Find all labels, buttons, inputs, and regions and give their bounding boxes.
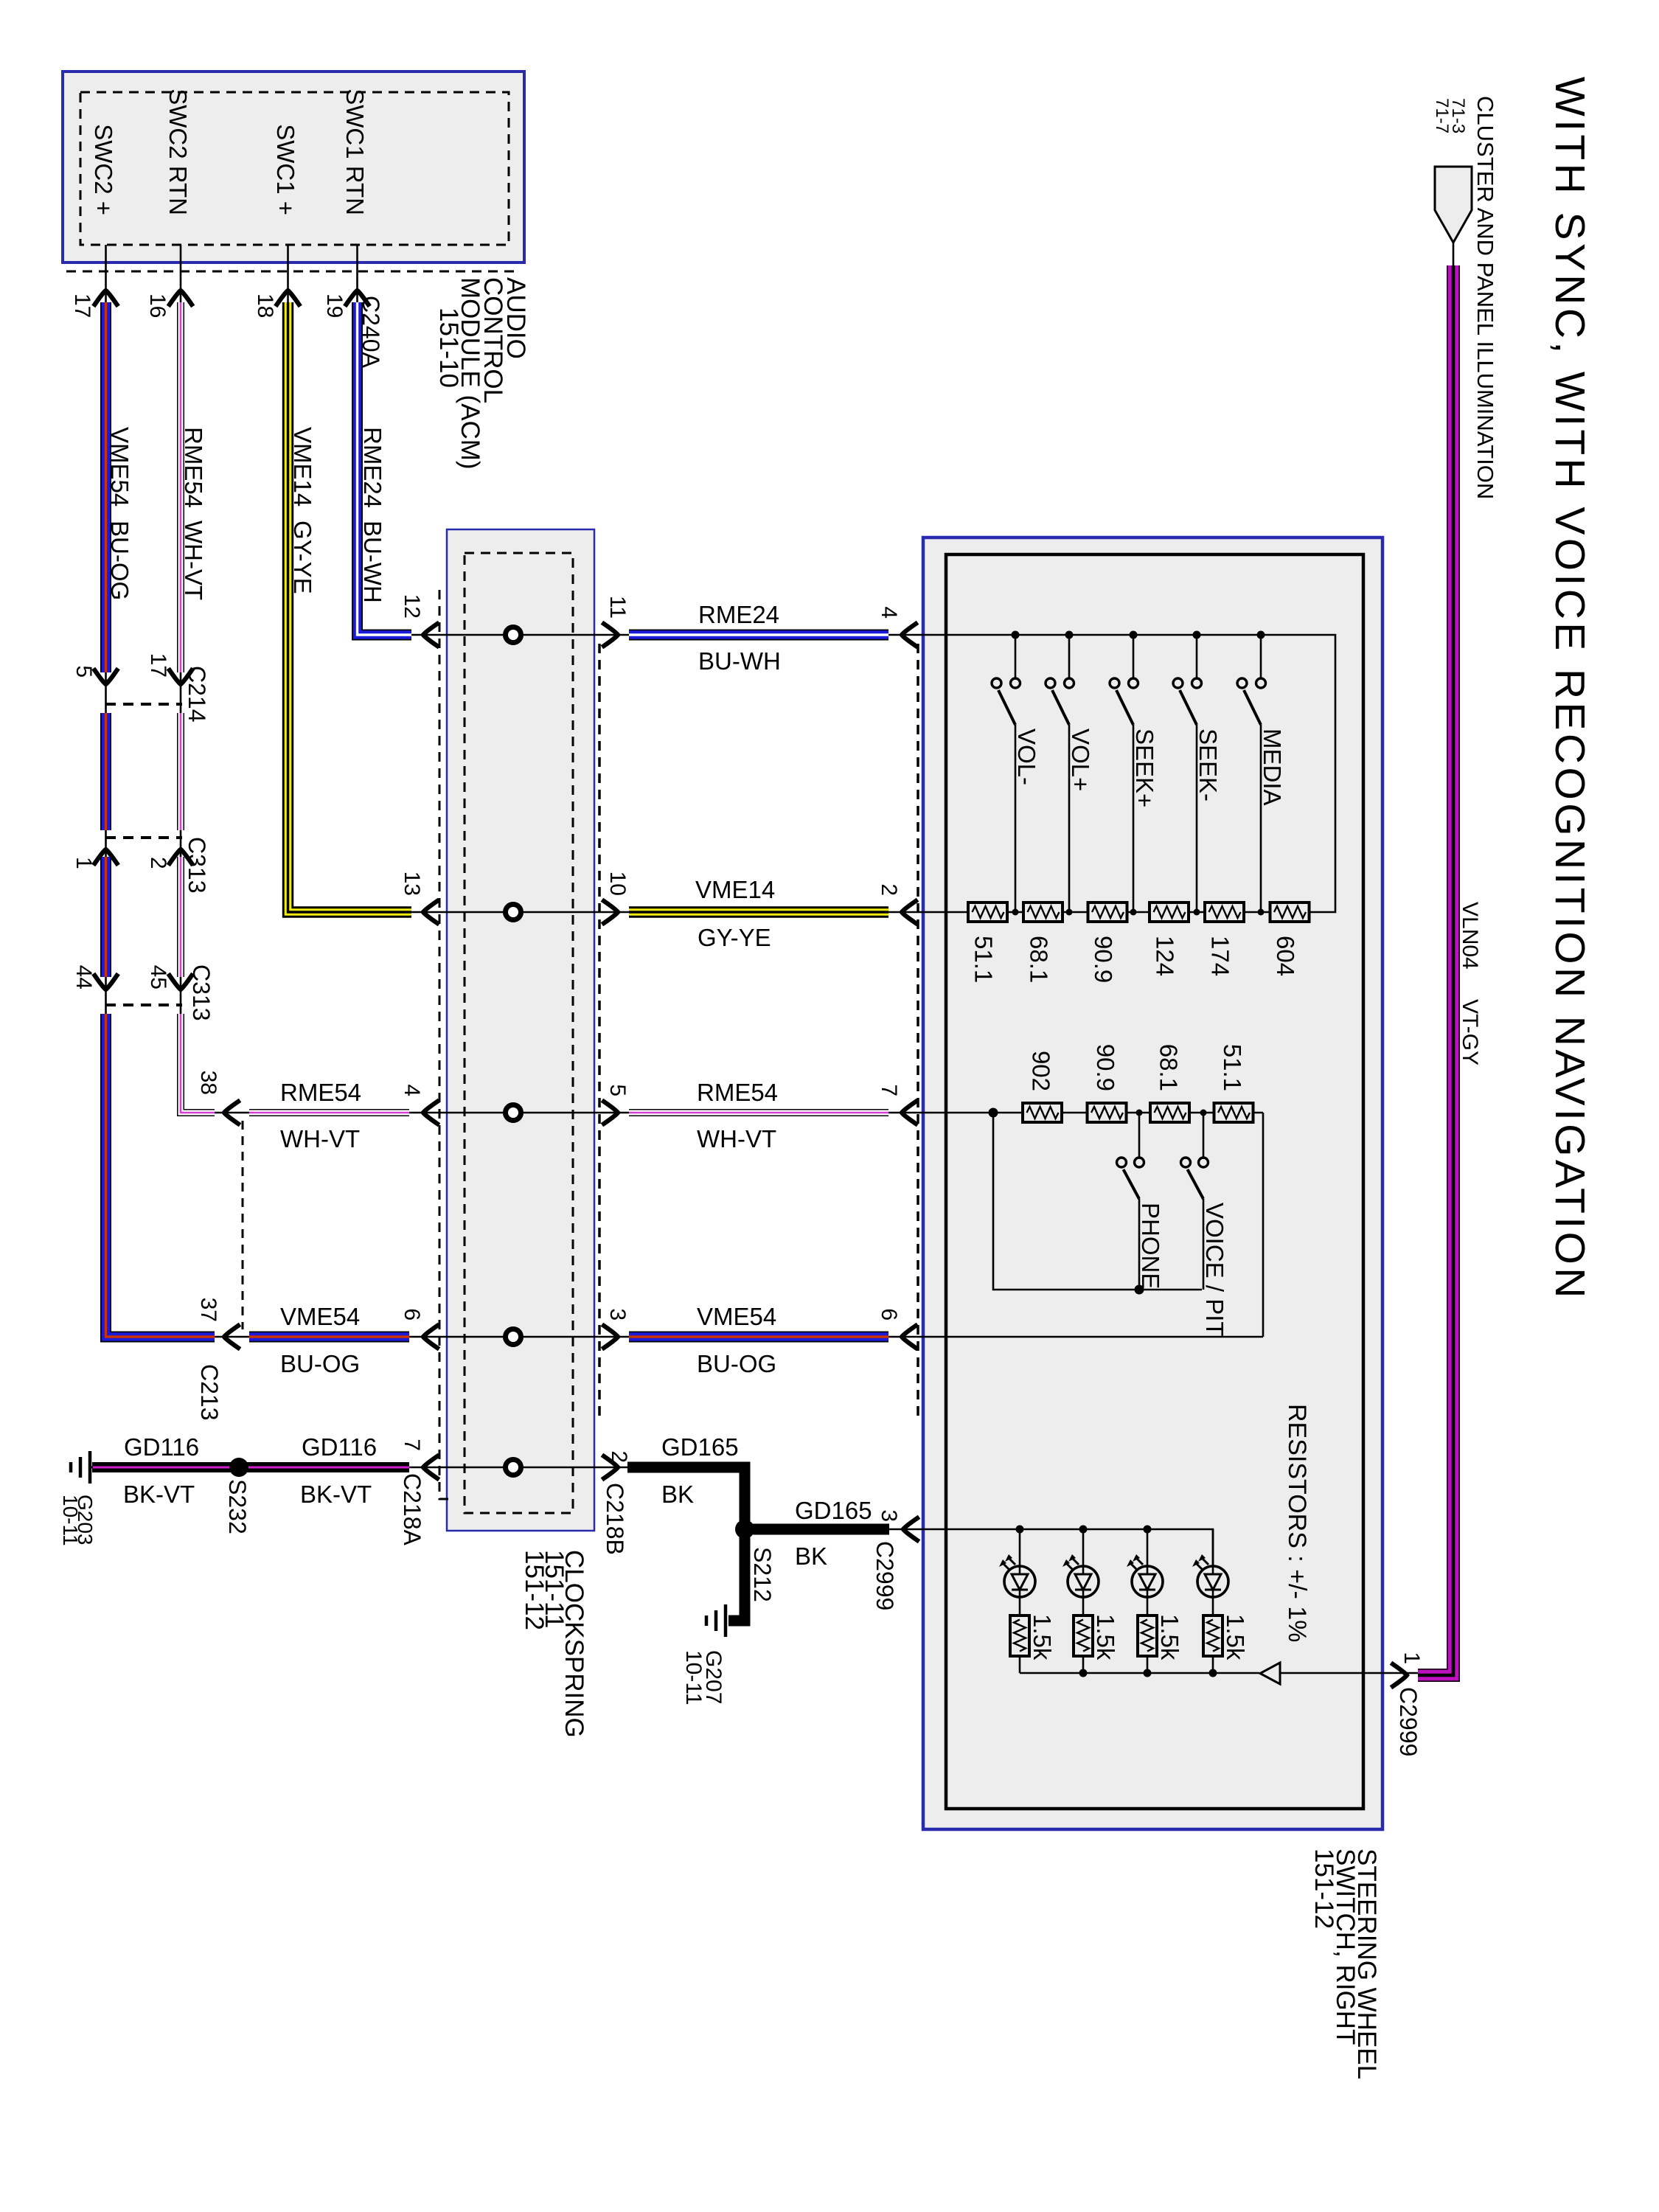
svg-text:2: 2 [607,1450,631,1463]
svg-text:BK: BK [661,1481,694,1508]
svg-text:4: 4 [400,1084,424,1096]
svg-text:151-12: 151-12 [520,1550,549,1630]
svg-text:GY-YE: GY-YE [289,521,316,594]
svg-text:RESISTORS : +/- 1%: RESISTORS : +/- 1% [1283,1404,1311,1642]
svg-text:MEDIA: MEDIA [1259,728,1286,806]
svg-text:1.5k: 1.5k [1222,1614,1249,1660]
svg-text:7: 7 [400,1439,424,1451]
svg-text:BK: BK [795,1543,827,1570]
svg-text:17: 17 [146,653,170,678]
svg-text:10-11: 10-11 [681,1650,706,1705]
svg-text:6: 6 [400,1308,424,1321]
svg-text:C218B: C218B [602,1483,628,1555]
svg-text:90.9: 90.9 [1090,936,1117,983]
svg-text:VLN04: VLN04 [1458,902,1482,970]
svg-text:68.1: 68.1 [1155,1044,1183,1091]
svg-text:SWC2 +: SWC2 + [90,124,117,215]
svg-text:51.1: 51.1 [1219,1044,1246,1091]
svg-text:10-11: 10-11 [59,1495,82,1546]
svg-text:90.9: 90.9 [1092,1044,1119,1091]
svg-text:1.5k: 1.5k [1156,1614,1183,1660]
svg-text:C240A: C240A [358,296,384,369]
svg-text:604: 604 [1272,936,1299,976]
svg-text:7: 7 [877,1084,901,1096]
svg-text:WH-VT: WH-VT [697,1125,776,1152]
svg-text:902: 902 [1028,1051,1055,1091]
svg-text:BU-OG: BU-OG [697,1350,776,1377]
svg-text:4: 4 [877,606,901,619]
svg-text:VOICE / PIT: VOICE / PIT [1201,1203,1228,1337]
svg-text:6: 6 [877,1308,901,1321]
svg-text:VME54: VME54 [106,427,133,507]
svg-text:13: 13 [400,872,424,896]
svg-text:S232: S232 [224,1479,251,1534]
svg-text:1: 1 [1399,1652,1424,1664]
svg-text:11: 11 [605,596,630,619]
svg-text:18: 18 [253,293,277,318]
svg-text:151-12: 151-12 [1310,1848,1338,1929]
svg-text:BK-VT: BK-VT [300,1481,372,1508]
svg-text:10: 10 [605,872,630,896]
svg-text:37: 37 [196,1298,220,1322]
svg-text:5: 5 [605,1084,630,1096]
svg-text:RME24: RME24 [359,427,386,508]
svg-text:GD165: GD165 [795,1497,872,1524]
svg-text:GD165: GD165 [661,1433,739,1461]
svg-text:5: 5 [72,665,96,678]
svg-text:BK-VT: BK-VT [123,1481,195,1508]
svg-text:RME54: RME54 [280,1079,361,1106]
svg-text:S212: S212 [749,1547,776,1602]
svg-text:C313: C313 [188,964,215,1021]
svg-text:VME54: VME54 [280,1303,360,1330]
svg-text:RME54: RME54 [697,1079,778,1106]
svg-text:3: 3 [877,1509,901,1522]
svg-text:VME14: VME14 [289,427,316,507]
svg-text:38: 38 [196,1071,220,1095]
svg-text:WITH SYNC, WITH VOICE RECOGNIT: WITH SYNC, WITH VOICE RECOGNITION NAVIGA… [1546,77,1593,1301]
svg-text:GD116: GD116 [302,1433,377,1461]
svg-text:51.1: 51.1 [970,936,998,983]
svg-text:BU-WH: BU-WH [359,521,386,603]
svg-text:BU-WH: BU-WH [698,647,781,675]
svg-text:SEEK+: SEEK+ [1131,728,1158,807]
svg-text:3: 3 [605,1308,630,1321]
svg-text:12: 12 [400,594,424,619]
svg-text:VME14: VME14 [695,876,775,903]
svg-text:2: 2 [146,857,170,869]
svg-text:RME54: RME54 [180,427,207,508]
svg-text:VOL+: VOL+ [1067,728,1094,791]
svg-text:BU-OG: BU-OG [280,1350,360,1377]
svg-text:124: 124 [1152,936,1179,976]
svg-text:C214: C214 [184,666,210,723]
svg-text:CLUSTER AND PANEL ILLUMINATION: CLUSTER AND PANEL ILLUMINATION [1472,96,1498,499]
svg-text:45: 45 [146,965,170,990]
svg-text:151-10: 151-10 [434,307,463,388]
svg-text:SWC2 RTN: SWC2 RTN [164,88,192,215]
svg-text:VME54: VME54 [697,1303,776,1330]
svg-text:SWC1 RTN: SWC1 RTN [341,88,369,215]
svg-text:C218A: C218A [399,1473,425,1546]
svg-text:WH-VT: WH-VT [180,521,207,600]
svg-text:1: 1 [72,857,96,869]
svg-text:GD116: GD116 [124,1433,199,1461]
svg-text:2: 2 [877,883,901,896]
svg-text:GY-YE: GY-YE [698,924,771,951]
svg-text:BU-OG: BU-OG [106,521,133,600]
svg-text:44: 44 [72,965,96,990]
svg-text:17: 17 [70,293,94,318]
svg-text:1.5k: 1.5k [1092,1614,1119,1660]
svg-text:SEEK-: SEEK- [1194,728,1222,801]
svg-text:16: 16 [145,293,170,318]
svg-text:C2999: C2999 [1395,1687,1422,1756]
svg-text:68.1: 68.1 [1026,936,1053,983]
svg-text:VT-GY: VT-GY [1458,999,1482,1065]
svg-text:71-7: 71-7 [1432,98,1452,133]
svg-text:174: 174 [1207,936,1234,976]
svg-text:PHONE: PHONE [1137,1203,1164,1289]
svg-text:C213: C213 [196,1364,223,1421]
svg-text:19: 19 [322,293,347,318]
svg-text:1.5k: 1.5k [1029,1614,1056,1660]
svg-text:C313: C313 [184,837,210,894]
svg-text:VOL-: VOL- [1013,728,1040,785]
svg-text:RME24: RME24 [698,601,779,628]
svg-text:SWC1 +: SWC1 + [272,124,299,215]
svg-text:WH-VT: WH-VT [280,1125,360,1152]
svg-text:C2999: C2999 [872,1541,898,1610]
